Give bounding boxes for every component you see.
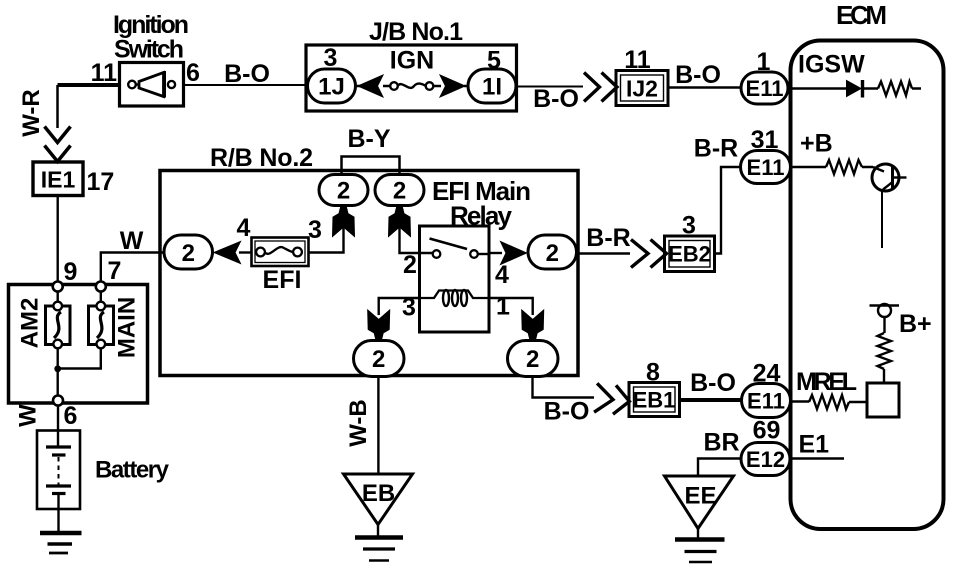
svg-text:EFI: EFI — [263, 266, 302, 294]
wire EB1 to E11/24 — [680, 398, 743, 402]
node 7 — [96, 282, 106, 292]
svg-text:3: 3 — [682, 212, 696, 240]
connector 2 (bottom left) — [354, 341, 405, 377]
resistor MREL — [809, 395, 849, 409]
svg-text:W: W — [15, 404, 42, 427]
connector E11 pin 1 — [741, 72, 788, 104]
svg-text:B-R: B-R — [694, 135, 738, 163]
svg-text:24: 24 — [753, 360, 781, 388]
connector E11 pin 24 — [742, 384, 791, 418]
connector 2 (left) — [164, 235, 213, 269]
node 6 — [53, 396, 63, 406]
svg-text:IGN: IGN — [390, 47, 434, 75]
svg-text:MREL: MREL — [796, 368, 857, 396]
svg-text:11: 11 — [91, 59, 118, 87]
wire +B — [791, 166, 874, 168]
svg-text:6: 6 — [64, 402, 78, 430]
connector 2 (bottom right) — [508, 341, 559, 377]
svg-text:2: 2 — [526, 346, 539, 373]
driver square — [867, 383, 899, 417]
relay coil — [421, 291, 489, 299]
svg-text:IE1: IE1 — [41, 167, 76, 193]
svg-text:AM2: AM2 — [17, 298, 44, 349]
svg-text:W-R: W-R — [18, 89, 45, 137]
wire W from fusebox to R/B — [101, 253, 164, 287]
ignition switch contacts — [128, 81, 136, 89]
wire bottom-right 2 to EB1 — [533, 377, 595, 398]
wire J/B to IJ2 — [517, 86, 584, 88]
chevrons to EB1 — [594, 383, 631, 415]
svg-text:IJ2: IJ2 — [626, 76, 658, 102]
B-Y bridge — [342, 157, 400, 176]
wire oval A drop — [308, 206, 344, 253]
connector 1I pin 5 — [468, 69, 516, 103]
connector IE1 — [33, 162, 83, 196]
svg-text:BR: BR — [703, 429, 739, 457]
svg-text:W: W — [120, 227, 144, 255]
svg-text:69: 69 — [753, 417, 781, 445]
svg-text:+B: +B — [800, 130, 833, 158]
ground battery — [40, 531, 82, 536]
svg-text:1J: 1J — [318, 74, 345, 101]
svg-text:B-R: B-R — [586, 224, 630, 252]
svg-text:E12: E12 — [746, 447, 785, 472]
svg-text:EB2: EB2 — [668, 242, 711, 267]
svg-text:MAIN: MAIN — [114, 297, 141, 358]
wire left vertical to arrows — [56, 85, 59, 128]
svg-text:6: 6 — [186, 59, 200, 87]
diode — [847, 81, 862, 97]
connector E12 pin 69 — [790, 457, 844, 459]
junction dot — [54, 365, 61, 372]
svg-text:B-Y: B-Y — [347, 125, 390, 153]
wire fusebox to battery — [57, 406, 59, 448]
fuse box AM2/MAIN — [9, 285, 148, 404]
connector 1J pin 3 — [308, 69, 356, 103]
ignition switch SW box — [120, 63, 184, 107]
svg-text:2: 2 — [393, 178, 406, 205]
ground EB triangle — [344, 474, 413, 525]
svg-text:4: 4 — [495, 261, 509, 289]
connector IJ2 pin 11 — [616, 71, 668, 106]
connector 2 (right) — [528, 235, 577, 269]
svg-text:4: 4 — [237, 214, 251, 242]
svg-text:9: 9 — [64, 258, 78, 286]
arrow right in J/B — [440, 75, 465, 97]
resistor B+ vertical — [878, 333, 892, 369]
wire IJ2 to E11 — [668, 86, 742, 88]
fuse AM2 — [46, 306, 71, 345]
svg-text:2: 2 — [546, 240, 559, 267]
arrow chevrons down on W-R wire — [45, 127, 71, 143]
arrow down into bottom-right 2 — [522, 310, 544, 339]
ECM box — [791, 41, 944, 530]
relay switch — [433, 250, 441, 258]
svg-text:B-O: B-O — [544, 398, 590, 426]
svg-text:17: 17 — [87, 168, 115, 196]
svg-text:2: 2 — [403, 251, 417, 279]
wire AM2 branch — [57, 287, 59, 401]
svg-text:B-O: B-O — [533, 85, 579, 113]
B+ terminal — [878, 304, 891, 317]
connector E11 pin 31 — [741, 151, 791, 184]
relay pin 4 wire and arrow — [489, 252, 502, 254]
svg-text:Battery: Battery — [95, 457, 170, 484]
svg-text:8: 8 — [646, 359, 660, 387]
wire oval B drop to relay pin 2 — [400, 206, 435, 254]
wire B-O ignition to J/B — [184, 84, 307, 86]
connector EB1 pin 8 — [629, 383, 680, 417]
svg-text:R/B No.2: R/B No.2 — [210, 144, 313, 172]
connector 2 (top B) — [375, 175, 424, 206]
connector 2 (top A) — [319, 175, 368, 206]
svg-text:J/B No.1: J/B No.1 — [369, 18, 463, 46]
svg-text:E1: E1 — [799, 431, 830, 459]
transistor — [872, 164, 899, 191]
svg-text:7: 7 — [108, 257, 122, 285]
resistor IGSW — [878, 82, 912, 96]
svg-text:31: 31 — [751, 126, 779, 154]
battery — [37, 431, 80, 510]
arrow up into oval B — [389, 208, 411, 237]
node 9 — [53, 282, 63, 292]
wire B-R EB2 to E11/31 — [714, 167, 742, 254]
svg-text:ECM: ECM — [836, 0, 887, 30]
svg-text:5: 5 — [487, 47, 501, 75]
svg-text:Switch: Switch — [114, 36, 184, 64]
ground EE bars — [675, 537, 725, 541]
svg-text:3: 3 — [308, 216, 322, 244]
wire ignition left — [58, 83, 120, 87]
ground EB bars — [355, 535, 403, 539]
chevrons to IJ2 — [584, 73, 600, 102]
svg-text:EB: EB — [362, 480, 395, 507]
svg-text:B+: B+ — [899, 310, 932, 338]
svg-text:W-B: W-B — [345, 399, 372, 447]
svg-text:E11: E11 — [747, 389, 785, 414]
wire bottom-left 2 to EB ground — [377, 377, 379, 475]
svg-text:B-O: B-O — [690, 369, 736, 397]
svg-text:EE: EE — [684, 483, 716, 510]
svg-text:2: 2 — [182, 240, 195, 267]
svg-text:1: 1 — [496, 293, 510, 321]
wire battery to ground — [57, 494, 59, 532]
svg-text:E11: E11 — [746, 76, 784, 101]
svg-text:1: 1 — [757, 48, 771, 76]
ground EE triangle — [665, 476, 734, 529]
arrow left into left 2 — [214, 242, 241, 264]
wire right 2 to EB2 — [577, 252, 631, 254]
arrow down into bottom-left 2 — [368, 310, 390, 339]
svg-text:3: 3 — [402, 294, 416, 322]
svg-text:11: 11 — [624, 46, 651, 74]
fuse MAIN — [89, 306, 114, 345]
wire fuse EFI left — [239, 251, 252, 253]
svg-text:B-O: B-O — [224, 60, 270, 88]
wire IE1 to fusebox — [57, 196, 59, 287]
fuse EFI — [252, 238, 309, 267]
svg-text:2: 2 — [372, 346, 385, 373]
relay EFI Main — [420, 226, 490, 332]
arrow up into oval A — [333, 208, 355, 237]
wire MAIN branch — [58, 287, 101, 369]
relay pin 3 wire — [379, 298, 420, 315]
svg-text:EB1: EB1 — [633, 388, 676, 413]
wire B+ to resistor — [883, 317, 885, 333]
chevrons to EB2 — [631, 240, 648, 268]
wire IGSW — [788, 87, 921, 89]
svg-text:B-O: B-O — [675, 61, 721, 89]
svg-text:E11: E11 — [747, 155, 785, 180]
svg-text:1I: 1I — [482, 74, 502, 101]
resistor +B — [826, 160, 862, 174]
wire MREL — [791, 400, 868, 403]
connector EB2 pin 3 — [665, 236, 715, 272]
relay pin 1 wire — [489, 298, 533, 315]
svg-text:3: 3 — [324, 44, 338, 72]
arrow left in J/B — [358, 75, 383, 97]
svg-text:2: 2 — [337, 178, 350, 205]
svg-text:IGSW: IGSW — [798, 51, 865, 79]
